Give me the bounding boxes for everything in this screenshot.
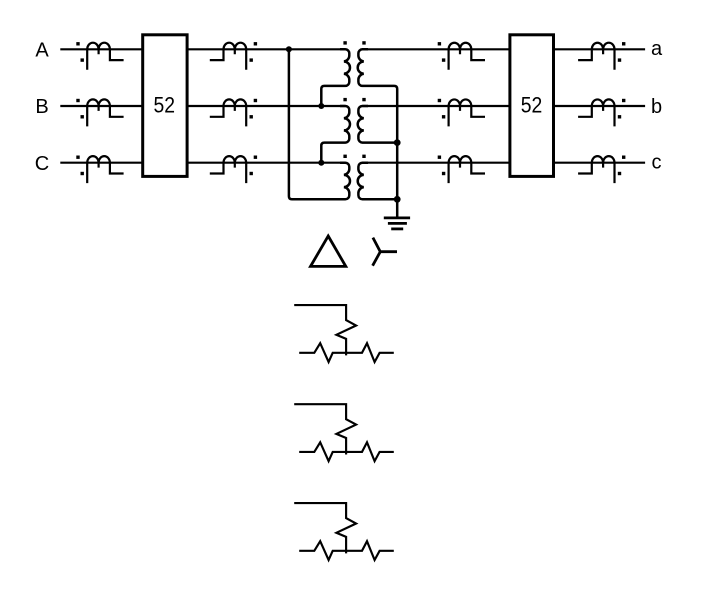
CT phase a (transformer side, right) xyxy=(449,43,485,70)
circuit breaker 52 (left) xyxy=(143,35,187,177)
polarity dot of CT phase C (transformer side, left) (lower) xyxy=(250,172,253,175)
positive-sequence network: bus with impedances left and right xyxy=(299,343,394,362)
transformer primary winding phase C (delta) + corner lead to phase A vertical xyxy=(289,49,350,199)
wire: phase C breaker to transformer xyxy=(187,162,345,164)
CT phase a (load side) xyxy=(578,43,614,70)
polarity dot of CT phase b (transformer side, right) (upper) xyxy=(438,99,441,102)
polarity dot primary winding B xyxy=(343,98,346,101)
polarity dot secondary winding b xyxy=(362,98,365,101)
svg-text:52: 52 xyxy=(521,94,543,118)
polarity dot secondary winding a xyxy=(362,41,365,44)
wire: phase b breaker to load xyxy=(554,105,646,107)
CT phase B (source side) xyxy=(87,99,123,126)
polarity dot primary winding A xyxy=(343,41,346,44)
polarity dot of CT phase A (transformer side, left) (upper) xyxy=(254,42,257,45)
CT phase C (transformer side, left) xyxy=(210,156,246,183)
polarity dot of CT phase b (load side) (upper) xyxy=(622,99,625,102)
transformer secondary winding phase b (wye) xyxy=(358,106,398,143)
CT phase c (transformer side, right) xyxy=(449,156,485,183)
junction node: phase B / delta corner xyxy=(318,103,324,109)
polarity dot of CT phase A (source side) (lower) xyxy=(81,58,84,61)
polarity dot of CT phase A (transformer side, left) (lower) xyxy=(250,58,253,61)
svg-text:a: a xyxy=(651,38,663,60)
polarity dot primary winding C xyxy=(343,155,346,158)
polarity dot of CT phase B (transformer side, left) (lower) xyxy=(250,115,253,118)
positive-sequence network: source branch with impedance xyxy=(294,305,356,355)
svg-text:52: 52 xyxy=(154,94,176,118)
wire: phase a breaker to load xyxy=(554,48,646,50)
polarity dot of CT phase c (transformer side, right) (lower) xyxy=(442,172,445,175)
junction node: wye neutral at winding c xyxy=(394,196,401,203)
CT phase c (load side) xyxy=(578,156,614,183)
CT phase C (source side) xyxy=(87,156,123,183)
wye connection symbol xyxy=(373,238,397,266)
negative-sequence network: bus with impedances left and right xyxy=(299,442,394,461)
polarity dot of CT phase a (load side) (lower) xyxy=(618,58,621,61)
polarity dot of CT phase b (transformer side, right) (lower) xyxy=(442,115,445,118)
CT phase b (load side) xyxy=(578,99,614,126)
polarity dot of CT phase c (load side) (upper) xyxy=(622,156,625,159)
wire: phase a transformer to breaker xyxy=(362,48,510,50)
delta connection symbol xyxy=(311,236,346,266)
polarity dot of CT phase C (transformer side, left) (upper) xyxy=(254,156,257,159)
transformer secondary winding phase c (wye) xyxy=(358,163,398,200)
polarity dot of CT phase C (source side) (upper) xyxy=(76,156,79,159)
wire: phase B source to breaker xyxy=(60,105,142,107)
svg-text:B: B xyxy=(35,96,48,118)
junction node: wye neutral at winding b xyxy=(394,139,401,146)
CT phase b (transformer side, right) xyxy=(449,99,485,126)
svg-text:C: C xyxy=(35,153,49,175)
polarity dot of CT phase B (source side) (upper) xyxy=(76,99,79,102)
polarity dot of CT phase a (load side) (upper) xyxy=(622,42,625,45)
transformer primary winding phase B (delta) xyxy=(321,106,350,163)
wire: phase b transformer to breaker xyxy=(362,105,510,107)
svg-text:b: b xyxy=(651,96,662,118)
wire: phase A source to breaker xyxy=(60,48,142,50)
transformer primary winding phase A (delta) xyxy=(321,49,350,106)
wire: phase c breaker to load xyxy=(554,162,646,164)
transformer secondary winding phase a (wye) + neutral conductor down to ground xyxy=(358,49,397,218)
wire: phase C source to breaker xyxy=(60,162,142,164)
zero-sequence network: bus with impedances left and right xyxy=(299,541,394,560)
polarity dot of CT phase B (transformer side, left) (upper) xyxy=(254,99,257,102)
polarity dot of CT phase c (load side) (lower) xyxy=(618,172,621,175)
junction node: phase A / delta corner xyxy=(286,46,292,52)
polarity dot of CT phase A (source side) (upper) xyxy=(76,42,79,45)
svg-text:c: c xyxy=(652,151,662,173)
polarity dot of CT phase a (transformer side, right) (lower) xyxy=(442,58,445,61)
CT phase A (source side) xyxy=(87,43,123,70)
polarity dot of CT phase c (transformer side, right) (upper) xyxy=(438,156,441,159)
wire: phase A breaker to transformer xyxy=(187,48,345,50)
circuit breaker 52 (right) xyxy=(510,35,554,177)
polarity dot of CT phase b (load side) (lower) xyxy=(618,115,621,118)
polarity dot of CT phase C (source side) (lower) xyxy=(81,172,84,175)
CT phase B (transformer side, left) xyxy=(210,99,246,126)
wire: phase B breaker to transformer xyxy=(187,105,345,107)
polarity dot of CT phase B (source side) (lower) xyxy=(81,115,84,118)
wire: phase c transformer to breaker xyxy=(362,162,510,164)
negative-sequence network: source branch with impedance xyxy=(294,404,356,454)
polarity dot of CT phase a (transformer side, right) (upper) xyxy=(438,42,441,45)
svg-text:A: A xyxy=(35,40,49,62)
polarity dot secondary winding c xyxy=(362,155,365,158)
ground (wye neutral) xyxy=(384,216,410,219)
CT phase A (transformer side, left) xyxy=(210,43,246,70)
junction node: phase C / delta corner xyxy=(318,160,324,166)
zero-sequence network: source branch with impedance xyxy=(294,503,356,553)
